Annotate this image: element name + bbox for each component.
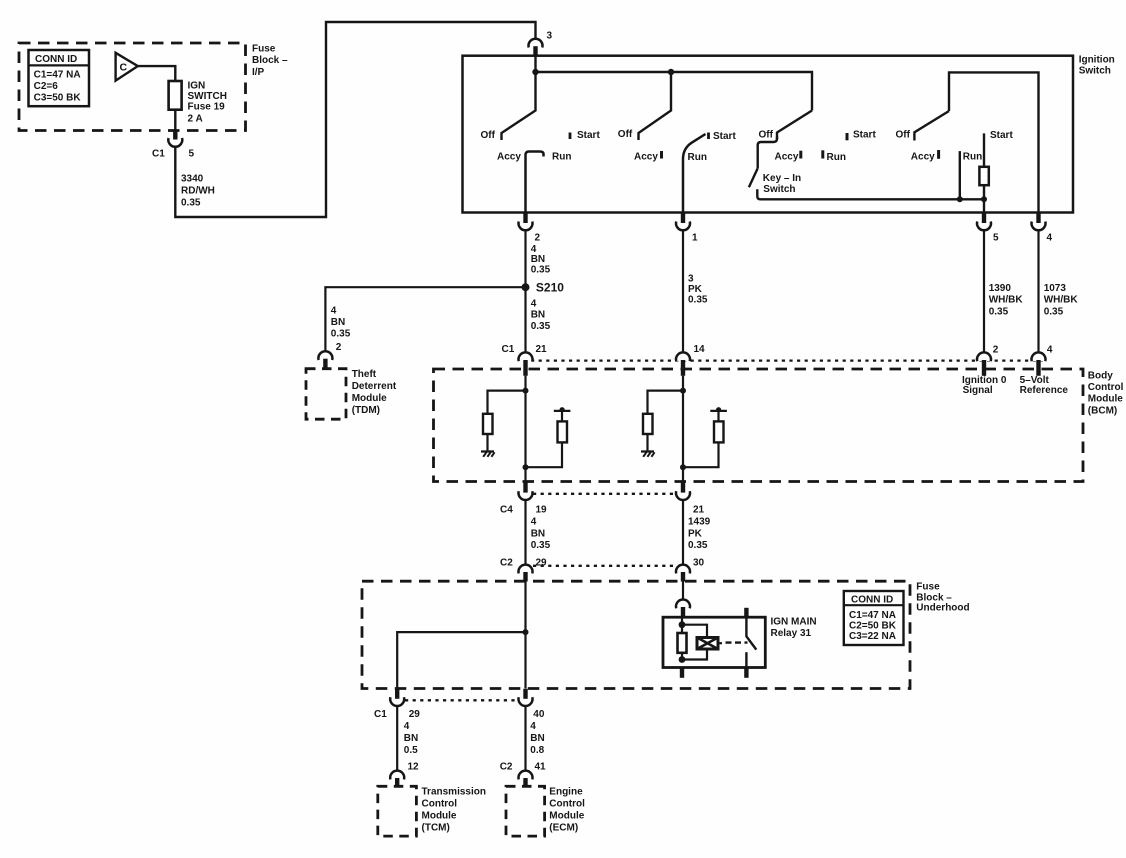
wire branch S210 to TDM bbox=[325, 287, 525, 352]
label 5-Volt Reference bbox=[1020, 375, 1069, 396]
wire pin 2 to splice S210 to BCM pin 21 bbox=[524, 230, 526, 353]
node junction start net bbox=[981, 196, 987, 202]
switch 3 Accy label and contact tick bbox=[775, 151, 801, 163]
svg-text:1390: 1390 bbox=[989, 283, 1012, 294]
body control module box bbox=[434, 369, 1084, 482]
connector 3 (ignition switch top) bbox=[529, 31, 553, 56]
svg-text:2 A: 2 A bbox=[188, 114, 203, 125]
svg-text:1439: 1439 bbox=[688, 517, 711, 528]
svg-text:BN: BN bbox=[404, 733, 418, 744]
svg-text:(TDM): (TDM) bbox=[352, 405, 380, 416]
svg-text:Control: Control bbox=[1088, 382, 1124, 393]
svg-text:0.35: 0.35 bbox=[531, 321, 551, 332]
svg-text:0.35: 0.35 bbox=[181, 198, 201, 209]
internal voltage bar 2 bbox=[710, 407, 727, 421]
svg-text:S210: S210 bbox=[536, 281, 564, 295]
theft deterrent module box bbox=[306, 369, 346, 420]
wire label 3 PK 0.35 bbox=[688, 274, 708, 306]
key-in switch open arm bbox=[749, 168, 758, 187]
TCM pin 12 connector bbox=[390, 762, 419, 787]
wire label 4 BN 0.35 (circuit 4 upper) bbox=[531, 244, 551, 276]
svg-text:Fuse 19: Fuse 19 bbox=[188, 102, 226, 113]
relay actuating dashed link bbox=[726, 641, 748, 643]
key-in switch lower contact and wire to start net bbox=[757, 189, 984, 199]
svg-text:C2=6: C2=6 bbox=[34, 81, 59, 92]
BCM pin 2 connector bbox=[977, 344, 999, 376]
relay coil branch wires bbox=[682, 625, 707, 660]
svg-text:4: 4 bbox=[531, 517, 537, 528]
switch 4 Accy label and contact tick bbox=[911, 150, 939, 162]
svg-text:C1: C1 bbox=[152, 149, 165, 160]
wire BCM 19 to fuse block 29 bbox=[524, 500, 526, 565]
switch 1 movable contact arm bbox=[502, 72, 536, 140]
svg-text:19: 19 bbox=[536, 504, 548, 515]
svg-text:4: 4 bbox=[331, 306, 337, 317]
connector C1 pin 5 (fuse block I/P) bbox=[152, 131, 195, 160]
ignition switch box bbox=[463, 56, 1074, 213]
relay switch lower contact bbox=[745, 652, 747, 667]
svg-text:14: 14 bbox=[694, 344, 706, 355]
svg-text:Underhood: Underhood bbox=[916, 603, 969, 614]
svg-text:0.35: 0.35 bbox=[989, 306, 1009, 317]
svg-text:Run: Run bbox=[963, 151, 982, 162]
svg-text:Control: Control bbox=[549, 798, 585, 809]
switch 2 pole wire curving to Start bbox=[683, 134, 706, 214]
svg-text:4: 4 bbox=[531, 298, 537, 309]
wire fuse block 40 to ECM 41 bbox=[524, 706, 526, 771]
resistor (BCM pullup 1) bbox=[558, 421, 568, 442]
switch 4 Start contact wire bbox=[983, 133, 985, 167]
svg-text:0.35: 0.35 bbox=[688, 540, 708, 551]
wire fuse block 29 to TCM 12 bbox=[396, 706, 398, 771]
svg-text:4: 4 bbox=[404, 721, 410, 732]
svg-text:4: 4 bbox=[530, 721, 536, 732]
svg-text:4: 4 bbox=[1047, 233, 1053, 244]
fuse block pin C1 29 connector bbox=[374, 689, 420, 720]
svg-text:0.35: 0.35 bbox=[1044, 306, 1064, 317]
fuse IGN SWITCH Fuse 19 2A bbox=[169, 81, 227, 125]
svg-text:PK: PK bbox=[688, 528, 703, 539]
relay switch output stub bbox=[744, 668, 748, 678]
svg-text:Off: Off bbox=[759, 130, 774, 141]
ignition switch pin 2 connector bbox=[519, 214, 541, 244]
svg-text:BN: BN bbox=[331, 317, 345, 328]
transmission control module box bbox=[378, 786, 417, 836]
svg-text:3340: 3340 bbox=[181, 174, 204, 185]
TDM pin 2 connector bbox=[318, 342, 341, 369]
svg-text:IGN: IGN bbox=[188, 81, 206, 92]
svg-text:Fuse: Fuse bbox=[252, 44, 276, 55]
svg-text:21: 21 bbox=[536, 344, 548, 355]
BCM pin 14 connector bbox=[676, 344, 705, 376]
svg-text:Run: Run bbox=[827, 152, 846, 163]
ground (BCM 1) bbox=[481, 452, 495, 457]
svg-text:Start: Start bbox=[853, 130, 876, 141]
svg-text:C3=50 BK: C3=50 BK bbox=[34, 92, 82, 103]
wire label 4 BN 0.35 (circuit 4 lower) bbox=[531, 298, 551, 332]
svg-text:C1=47 NA: C1=47 NA bbox=[849, 610, 896, 621]
svg-text:41: 41 bbox=[535, 762, 547, 773]
BCM pin 4 connector bbox=[1032, 344, 1053, 376]
label Ignition Switch bbox=[1079, 55, 1115, 77]
fuse block C2 29 connector bbox=[500, 557, 547, 581]
BCM wire run/crank input bbox=[682, 376, 684, 482]
svg-text:BN: BN bbox=[531, 254, 545, 265]
relay coil input wire bbox=[681, 617, 683, 625]
wire label 4 BN 0.35 (TDM branch) bbox=[331, 306, 351, 340]
svg-text:IGN MAIN: IGN MAIN bbox=[771, 616, 817, 627]
node junction fuse block branch bbox=[523, 629, 529, 635]
svg-text:CONN ID: CONN ID bbox=[35, 54, 77, 65]
switch 3 Run contact tick and label bbox=[823, 150, 846, 163]
svg-text:Control: Control bbox=[422, 798, 458, 809]
node junction relay coil top bbox=[679, 621, 686, 628]
svg-text:40: 40 bbox=[533, 709, 545, 720]
label Transmission Control Module (TCM) bbox=[422, 786, 486, 833]
svg-text:5: 5 bbox=[993, 233, 999, 244]
svg-text:(ECM): (ECM) bbox=[549, 823, 578, 834]
relay coil output stub bbox=[680, 668, 684, 678]
svg-text:C4: C4 bbox=[500, 504, 513, 515]
wire branch to pullup resistor 2 bbox=[683, 442, 719, 467]
fuse block pin 40 connector bbox=[519, 689, 545, 720]
svg-text:0.35: 0.35 bbox=[531, 540, 551, 551]
svg-text:Transmission: Transmission bbox=[422, 786, 486, 797]
wire label 4 BN 0.8 bbox=[530, 721, 544, 756]
svg-text:12: 12 bbox=[408, 762, 420, 773]
svg-text:C3=22 NA: C3=22 NA bbox=[849, 631, 896, 642]
svg-text:RD/WH: RD/WH bbox=[181, 186, 215, 197]
label Fuse Block - Underhood bbox=[916, 582, 969, 614]
switch 3 Start contact tick and label bbox=[847, 130, 876, 141]
switch 1 Start contact tick bbox=[569, 133, 572, 140]
ignition switch pin 4 connector bbox=[1032, 214, 1053, 244]
wire pin 29 into fuse block with branch bbox=[397, 582, 525, 689]
svg-text:Off: Off bbox=[481, 130, 496, 141]
svg-text:SWITCH: SWITCH bbox=[188, 91, 227, 102]
switch 4 movable contact arm bbox=[914, 111, 949, 141]
switch 2 Start contact tick bbox=[707, 133, 710, 140]
splice S210 bbox=[522, 281, 565, 295]
node junction at switch 2 bbox=[668, 69, 674, 75]
switch 2 movable contact arm bbox=[639, 72, 672, 140]
relay coil terminal connector bbox=[676, 599, 690, 617]
svg-text:4: 4 bbox=[1047, 344, 1053, 355]
connector row dotted line (bottom C1) bbox=[405, 699, 517, 701]
switch 1 Run contact and pole wire bbox=[526, 152, 544, 214]
node junction run/start net bbox=[957, 196, 963, 202]
ignition switch pin 1 connector bbox=[676, 214, 698, 244]
svg-text:C2: C2 bbox=[500, 557, 513, 568]
switch 3 Off contact elbow to key-in switch bbox=[758, 137, 777, 169]
switch 3 movable contact arm bbox=[777, 111, 812, 140]
node junction BCM wire 1 lower bbox=[523, 464, 529, 470]
svg-text:30: 30 bbox=[693, 557, 705, 568]
node junction relay coil bottom bbox=[679, 656, 686, 663]
svg-text:0.8: 0.8 bbox=[530, 745, 544, 756]
svg-text:2: 2 bbox=[535, 233, 541, 244]
fuse block C2 30 connector bbox=[676, 557, 705, 581]
wire pin 30 to relay bbox=[682, 582, 684, 600]
svg-text:21: 21 bbox=[693, 504, 705, 515]
label Engine Control Module (ECM) bbox=[549, 786, 585, 833]
svg-text:Off: Off bbox=[618, 129, 633, 140]
switch 2 Accy label and contact tick bbox=[634, 151, 662, 162]
svg-text:C2=50 BK: C2=50 BK bbox=[849, 620, 897, 631]
label IGN MAIN Relay 31 bbox=[771, 616, 817, 639]
fuse block underhood dashed box bbox=[362, 581, 910, 688]
off-page reference triangle C bbox=[116, 53, 138, 81]
svg-text:Deterrent: Deterrent bbox=[352, 381, 397, 392]
engine control module box bbox=[506, 786, 545, 836]
svg-text:Module: Module bbox=[1088, 394, 1123, 405]
relay switch arm bbox=[746, 617, 756, 649]
ECM pin C2 41 connector bbox=[500, 762, 546, 787]
wire resistor 2 to ground bbox=[646, 434, 648, 451]
label Key - In Switch bbox=[763, 173, 801, 195]
node junction BCM wire 2 lower bbox=[680, 464, 686, 470]
svg-text:WH/BK: WH/BK bbox=[1044, 295, 1079, 306]
wire label 4 BN 0.5 bbox=[404, 721, 418, 756]
svg-text:Key – In: Key – In bbox=[763, 173, 801, 184]
svg-text:C1: C1 bbox=[502, 344, 515, 355]
internal voltage bar 1 bbox=[554, 407, 571, 421]
wire bus from connector 3 bbox=[536, 56, 813, 111]
svg-text:CONN ID: CONN ID bbox=[851, 594, 893, 605]
svg-text:Body: Body bbox=[1088, 370, 1113, 381]
fuse block I/P dashed box bbox=[19, 43, 246, 131]
switch 4 Run contact wire bbox=[959, 151, 961, 199]
svg-text:(TCM): (TCM) bbox=[422, 823, 450, 834]
wire branch to pulldown resistor 2 bbox=[648, 391, 684, 414]
svg-text:1073: 1073 bbox=[1044, 283, 1067, 294]
svg-text:Accy: Accy bbox=[775, 151, 799, 162]
node junction at switch 1 bbox=[532, 69, 538, 75]
svg-text:2: 2 bbox=[993, 344, 999, 355]
svg-text:Module: Module bbox=[422, 810, 457, 821]
resistor (BCM pulldown 2) bbox=[643, 414, 653, 434]
svg-text:Relay 31: Relay 31 bbox=[771, 628, 812, 639]
ignition switch pin 5 connector bbox=[977, 214, 999, 244]
svg-text:29: 29 bbox=[409, 709, 421, 720]
svg-text:2: 2 bbox=[336, 342, 342, 353]
wire resistor to start net bbox=[983, 185, 985, 213]
resistor (relay parallel) bbox=[678, 625, 687, 660]
svg-text:0.35: 0.35 bbox=[531, 265, 551, 276]
wire branch to pullup resistor 1 bbox=[526, 442, 563, 467]
ground (BCM 2) bbox=[641, 452, 655, 457]
svg-text:Reference: Reference bbox=[1020, 385, 1069, 396]
svg-text:1: 1 bbox=[692, 233, 698, 244]
svg-text:Start: Start bbox=[577, 130, 600, 141]
connector row dotted line (BCM C1) bbox=[531, 359, 1043, 361]
svg-text:Start: Start bbox=[990, 130, 1013, 141]
svg-text:Engine: Engine bbox=[549, 786, 583, 797]
svg-text:Block –: Block – bbox=[252, 55, 288, 66]
svg-text:Fuse: Fuse bbox=[916, 582, 940, 593]
wire label 4 BN 0.35 (below BCM) bbox=[531, 517, 551, 552]
svg-text:(BCM): (BCM) bbox=[1088, 405, 1117, 416]
wire label 1439 PK 0.35 bbox=[688, 517, 711, 552]
svg-text:Module: Module bbox=[549, 810, 584, 821]
switch 4 feed wire from pin 4 bbox=[949, 72, 1039, 213]
relay coil element (box with X) bbox=[697, 638, 722, 650]
svg-text:WH/BK: WH/BK bbox=[989, 295, 1024, 306]
wire pin 4 to BCM pin 4 bbox=[1037, 230, 1039, 353]
label Theft Deterrent Module (TDM) bbox=[352, 369, 397, 416]
svg-text:Accy: Accy bbox=[634, 151, 658, 162]
wire pin 1 to BCM pin 14 bbox=[682, 230, 684, 353]
svg-text:Accy: Accy bbox=[497, 151, 521, 162]
svg-text:C1=47 NA: C1=47 NA bbox=[34, 70, 81, 81]
svg-text:BN: BN bbox=[531, 310, 545, 321]
svg-text:I/P: I/P bbox=[252, 67, 265, 78]
connector row dotted line (BCM C4) bbox=[533, 493, 675, 495]
svg-text:C2: C2 bbox=[500, 762, 513, 773]
svg-text:Run: Run bbox=[688, 152, 707, 163]
svg-text:Module: Module bbox=[352, 393, 387, 404]
BCM pin C4 19 connector bbox=[500, 482, 547, 515]
wire triangle to fuse bbox=[138, 66, 176, 81]
svg-text:Switch: Switch bbox=[1079, 66, 1111, 77]
svg-text:0.35: 0.35 bbox=[688, 294, 708, 305]
resistor (ignition switch start circuit) bbox=[979, 167, 988, 185]
svg-text:5: 5 bbox=[189, 149, 195, 160]
wire resistor 1 to ground bbox=[486, 434, 488, 451]
label Body Control Module (BCM) bbox=[1088, 370, 1124, 416]
svg-text:Switch: Switch bbox=[763, 184, 795, 195]
BCM pin 21 connector bbox=[502, 344, 548, 376]
wire fuse to connector bbox=[174, 110, 176, 131]
wire C1-5 to connector 3 (long route) bbox=[175, 22, 535, 217]
resistor (BCM pulldown 1) bbox=[483, 414, 493, 434]
wire BCM 21 to fuse block 30 bbox=[682, 500, 684, 565]
svg-text:0.35: 0.35 bbox=[331, 328, 351, 339]
wire pin 5 to BCM pin 2 bbox=[983, 230, 985, 353]
svg-text:BN: BN bbox=[531, 528, 545, 539]
node junction BCM wire 2 upper bbox=[680, 388, 686, 394]
CONN ID table (fuse block underhood) bbox=[844, 591, 904, 645]
wire branch to pulldown resistor 1 bbox=[488, 391, 526, 414]
svg-text:PK: PK bbox=[688, 284, 703, 295]
svg-text:Ignition: Ignition bbox=[1079, 55, 1115, 66]
svg-text:BN: BN bbox=[530, 733, 544, 744]
svg-text:Off: Off bbox=[896, 129, 911, 140]
label Fuse Block - I/P bbox=[252, 44, 288, 79]
relay IGN MAIN Relay 31 box bbox=[663, 617, 765, 667]
BCM wire ignition 0 input bbox=[524, 376, 526, 482]
resistor (BCM pullup 2) bbox=[714, 421, 724, 442]
svg-text:0.5: 0.5 bbox=[404, 745, 418, 756]
wire label 1073 WH/BK 0.35 bbox=[1044, 283, 1079, 318]
node junction BCM wire 1 upper bbox=[523, 388, 529, 394]
svg-text:Accy: Accy bbox=[911, 151, 935, 162]
svg-text:C1: C1 bbox=[374, 709, 387, 720]
BCM pin C4 21 connector bbox=[676, 482, 705, 515]
svg-text:3: 3 bbox=[547, 31, 553, 42]
label Ignition 0 Signal bbox=[962, 375, 1007, 396]
connector row dotted line (C2) bbox=[533, 565, 675, 567]
CONN ID table (fuse block I/P) bbox=[29, 50, 90, 106]
wire label 1390 WH/BK 0.35 bbox=[989, 283, 1024, 318]
wire label 3340 RD/WH 0.35 bbox=[181, 174, 215, 209]
svg-text:Signal: Signal bbox=[963, 385, 993, 396]
svg-text:Run: Run bbox=[552, 151, 571, 162]
svg-text:Theft: Theft bbox=[352, 369, 377, 380]
relay switch common stub bbox=[744, 608, 748, 617]
svg-text:C: C bbox=[120, 62, 128, 74]
svg-text:Start: Start bbox=[713, 131, 736, 142]
